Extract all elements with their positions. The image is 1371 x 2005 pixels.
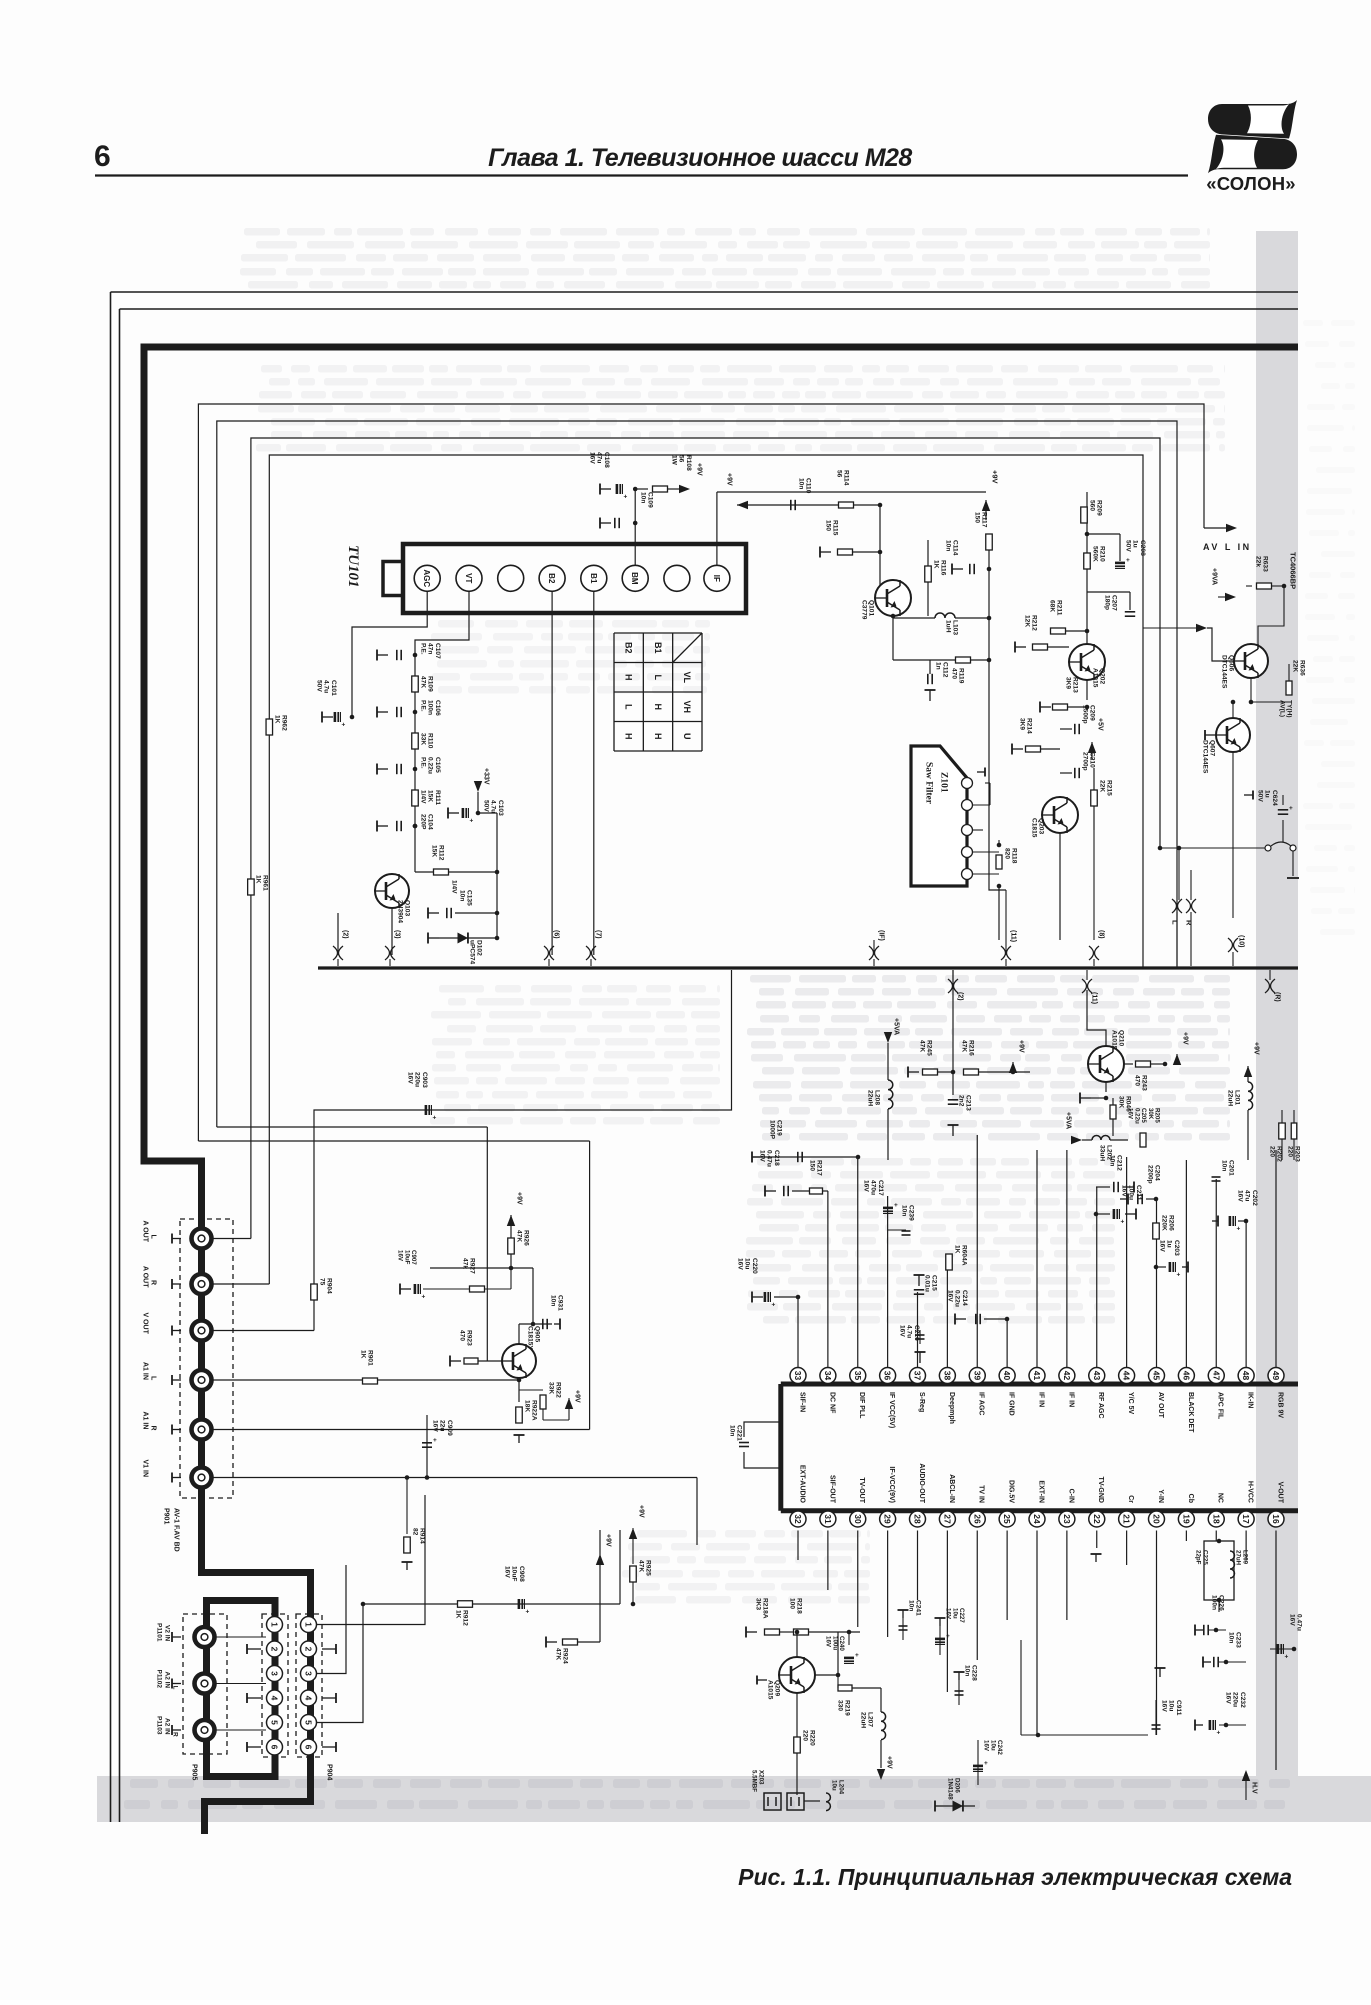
svg-text:C212: C212 — [1116, 1155, 1123, 1171]
svg-text:0.47u: 0.47u — [766, 1150, 773, 1167]
svg-text:R927: R927 — [469, 1258, 476, 1274]
svg-text:16: 16 — [1271, 1514, 1281, 1524]
svg-text:V OUT: V OUT — [142, 1313, 149, 1335]
svg-text:C103: C103 — [497, 800, 504, 816]
svg-text:C3779: C3779 — [861, 600, 868, 620]
svg-text:V2 IN: V2 IN — [164, 1625, 171, 1642]
svg-text:16V: 16V — [1225, 1692, 1232, 1704]
svg-text:A1 IN: A1 IN — [142, 1412, 149, 1430]
svg-text:C1815Y: C1815Y — [527, 1326, 534, 1350]
svg-text:R210: R210 — [1099, 546, 1106, 562]
svg-text:R: R — [172, 1732, 179, 1737]
svg-text:P904: P904 — [326, 1764, 333, 1780]
svg-text:Q103: Q103 — [404, 900, 411, 916]
svg-text:C109: C109 — [647, 492, 654, 508]
svg-text:R922A: R922A — [531, 1400, 538, 1421]
svg-text:TC4066BP: TC4066BP — [1289, 552, 1298, 589]
svg-text:IK-IN: IK-IN — [1247, 1392, 1254, 1408]
svg-text:470u: 470u — [870, 1180, 877, 1195]
svg-text:C202: C202 — [1251, 1190, 1258, 1206]
svg-text:R604A: R604A — [961, 1245, 968, 1266]
svg-text:1u: 1u — [1264, 790, 1271, 798]
svg-text:1u: 1u — [1132, 540, 1139, 548]
svg-text:4: 4 — [304, 1696, 314, 1701]
svg-text:100: 100 — [789, 1598, 796, 1609]
svg-text:«СОЛОН»: «СОЛОН» — [1206, 173, 1296, 194]
svg-text:C204: C204 — [1154, 1165, 1161, 1181]
svg-text:180p: 180p — [1104, 595, 1111, 610]
svg-text:R: R — [150, 1280, 157, 1285]
svg-text:15K: 15K — [431, 845, 438, 857]
svg-text:Q905: Q905 — [534, 1326, 541, 1342]
svg-text:R117: R117 — [981, 512, 988, 528]
svg-text:L: L — [1171, 920, 1180, 925]
svg-text:R901: R901 — [367, 1350, 374, 1366]
svg-text:DTC144ES: DTC144ES — [1202, 740, 1209, 774]
svg-text:P905: P905 — [191, 1764, 198, 1780]
svg-text:100n: 100n — [1211, 1595, 1218, 1610]
svg-text:H: H — [653, 733, 663, 740]
svg-text:16V: 16V — [1121, 1185, 1128, 1197]
svg-text:3K3: 3K3 — [755, 1598, 762, 1610]
svg-text:5: 5 — [270, 1720, 280, 1725]
svg-text:IF: IF — [712, 575, 721, 582]
svg-text:23: 23 — [1062, 1514, 1072, 1524]
svg-text:(R): (R) — [1274, 992, 1281, 1002]
svg-text:560K: 560K — [1092, 546, 1099, 562]
svg-text:10u: 10u — [831, 1780, 838, 1791]
svg-text:A1 IN: A1 IN — [142, 1362, 149, 1380]
svg-text:16V: 16V — [945, 1608, 952, 1620]
svg-text:C624: C624 — [1271, 790, 1278, 806]
svg-text:L: L — [172, 1686, 179, 1690]
svg-text:+: + — [422, 1294, 426, 1301]
svg-text:TY(H): TY(H) — [1286, 700, 1293, 718]
svg-text:R219: R219 — [844, 1700, 851, 1716]
svg-text:C108: C108 — [603, 452, 610, 468]
svg-text:EXT-AUDIO: EXT-AUDIO — [798, 1465, 805, 1504]
svg-text:(6): (6) — [553, 930, 560, 939]
svg-text:26: 26 — [972, 1514, 982, 1524]
svg-text:5.5MBF: 5.5MBF — [751, 1770, 758, 1792]
svg-text:4.7u: 4.7u — [906, 1325, 913, 1338]
svg-text:IF VCC(5V): IF VCC(5V) — [888, 1392, 895, 1428]
svg-text:SIF-OUT: SIF-OUT — [828, 1475, 835, 1504]
svg-text:R109: R109 — [427, 676, 434, 692]
svg-text:C201: C201 — [1228, 1160, 1235, 1176]
svg-text:P.E.: P.E. — [420, 700, 427, 712]
svg-text:4.7u: 4.7u — [490, 800, 497, 813]
svg-text:+33V: +33V — [483, 768, 490, 785]
svg-text:220: 220 — [1269, 1146, 1276, 1157]
svg-text:16V: 16V — [432, 1420, 439, 1432]
svg-text:56: 56 — [836, 470, 843, 478]
svg-text:33: 33 — [793, 1371, 803, 1381]
svg-text:(8): (8) — [1098, 930, 1105, 939]
svg-text:(7): (7) — [595, 930, 602, 939]
svg-text:C209: C209 — [1089, 705, 1096, 721]
svg-text:(2): (2) — [342, 930, 349, 939]
svg-text:A1015: A1015 — [767, 1680, 774, 1700]
svg-text:C241: C241 — [915, 1600, 922, 1616]
svg-text:16V: 16V — [589, 452, 596, 464]
svg-text:P1101: P1101 — [156, 1623, 163, 1642]
svg-text:22uH: 22uH — [867, 1090, 874, 1106]
svg-text:+: + — [946, 1633, 950, 1640]
svg-text:470: 470 — [1134, 1075, 1141, 1086]
svg-text:1N4148: 1N4148 — [947, 1778, 954, 1800]
svg-text:28: 28 — [913, 1514, 923, 1524]
svg-text:C1815: C1815 — [1031, 818, 1038, 838]
svg-text:82: 82 — [412, 1528, 419, 1536]
svg-text:C931: C931 — [557, 1295, 564, 1311]
svg-text:20: 20 — [1152, 1514, 1162, 1524]
svg-text:S-Reg: S-Reg — [918, 1392, 925, 1412]
svg-text:APC FIL: APC FIL — [1217, 1392, 1224, 1420]
svg-text:R243: R243 — [1141, 1075, 1148, 1091]
svg-text:TV-GND: TV-GND — [1097, 1477, 1104, 1503]
svg-text:47K: 47K — [420, 676, 427, 688]
svg-text:DC NF: DC NF — [828, 1392, 835, 1414]
svg-text:R633: R633 — [1262, 556, 1269, 572]
svg-text:+9V: +9V — [574, 1390, 581, 1403]
svg-text:6: 6 — [304, 1745, 314, 1750]
svg-text:16V: 16V — [983, 1740, 990, 1752]
svg-text:+: + — [342, 722, 346, 729]
svg-text:R203: R203 — [1294, 1146, 1301, 1162]
svg-text:33K: 33K — [548, 1382, 555, 1394]
svg-text:+9V: +9V — [696, 463, 703, 476]
svg-text:NC: NC — [1217, 1493, 1224, 1503]
svg-text:R211: R211 — [1056, 600, 1063, 616]
svg-text:50V: 50V — [316, 680, 323, 692]
svg-text:R115: R115 — [832, 520, 839, 536]
svg-text:24: 24 — [1032, 1514, 1042, 1524]
svg-text:Q203: Q203 — [1038, 818, 1045, 834]
svg-text:(3): (3) — [394, 930, 401, 939]
svg-text:(2): (2) — [957, 992, 964, 1001]
svg-text:+: + — [772, 1302, 776, 1309]
svg-text:560: 560 — [1089, 500, 1096, 511]
svg-text:C215: C215 — [931, 1275, 938, 1291]
svg-text:AV OUT: AV OUT — [1157, 1392, 1164, 1419]
svg-text:P901: P901 — [163, 1508, 170, 1524]
svg-text:R108: R108 — [685, 455, 692, 471]
svg-text:R218A: R218A — [762, 1598, 769, 1619]
svg-text:R206: R206 — [1168, 1215, 1175, 1231]
svg-text:+: + — [1177, 1272, 1181, 1279]
svg-text:34: 34 — [823, 1371, 833, 1381]
svg-text:BM: BM — [630, 572, 639, 585]
svg-text:C114: C114 — [952, 540, 959, 556]
svg-text:Z101: Z101 — [939, 772, 949, 793]
svg-text:R112: R112 — [438, 845, 445, 861]
svg-text:10n: 10n — [459, 890, 466, 901]
svg-text:49: 49 — [1271, 1371, 1281, 1381]
svg-text:AV-1 F.AV BD: AV-1 F.AV BD — [173, 1508, 180, 1552]
svg-text:1K: 1K — [360, 1350, 367, 1359]
svg-text:C214: C214 — [961, 1290, 968, 1306]
svg-text:220: 220 — [1287, 1146, 1294, 1157]
svg-text:R216: R216 — [968, 1040, 975, 1056]
svg-text:16V: 16V — [759, 1150, 766, 1162]
svg-text:2: 2 — [270, 1647, 280, 1652]
svg-text:10n: 10n — [729, 1425, 736, 1436]
svg-text:AGC: AGC — [422, 569, 431, 587]
svg-text:R116: R116 — [940, 560, 947, 576]
svg-text:16V: 16V — [1127, 1108, 1134, 1120]
svg-text:V-OUT: V-OUT — [1276, 1482, 1283, 1504]
svg-text:(10): (10) — [1238, 935, 1245, 947]
svg-text:10n: 10n — [640, 492, 647, 503]
svg-text:2N3904: 2N3904 — [397, 900, 404, 923]
svg-text:SIF-IN: SIF-IN — [798, 1392, 805, 1412]
svg-text:L: L — [623, 704, 633, 710]
svg-text:R110: R110 — [427, 733, 434, 749]
svg-text:43: 43 — [1092, 1371, 1102, 1381]
svg-text:0.22u: 0.22u — [427, 757, 434, 774]
svg-text:Q202: Q202 — [1099, 668, 1106, 684]
svg-text:+9V: +9V — [886, 1756, 893, 1769]
svg-text:Глава 1. Телевизионное шасси М: Глава 1. Телевизионное шасси М28 — [488, 144, 912, 172]
svg-text:C239: C239 — [908, 1205, 915, 1221]
svg-text:+: + — [1237, 1226, 1241, 1233]
svg-text:L201: L201 — [1234, 1090, 1241, 1105]
svg-text:Deepmph: Deepmph — [948, 1392, 955, 1424]
svg-text:C208: C208 — [1139, 540, 1146, 556]
svg-text:R922: R922 — [555, 1382, 562, 1398]
svg-text:Cr: Cr — [1127, 1495, 1134, 1503]
svg-text:P1103: P1103 — [156, 1716, 163, 1735]
svg-text:ABCL-IN: ABCL-IN — [948, 1474, 955, 1503]
svg-text:Y-IN: Y-IN — [1157, 1489, 1164, 1503]
svg-text:50V: 50V — [1257, 790, 1264, 802]
svg-text:25: 25 — [1002, 1514, 1012, 1524]
svg-text:IF IN: IF IN — [1037, 1392, 1044, 1407]
svg-text:1K: 1K — [954, 1245, 961, 1254]
svg-text:+9V: +9V — [1253, 1042, 1260, 1055]
svg-text:+9V: +9V — [1018, 1040, 1025, 1053]
svg-text:47u: 47u — [596, 452, 603, 463]
svg-text:VH: VH — [682, 700, 692, 713]
svg-text:R214: R214 — [1026, 718, 1033, 734]
svg-text:C216: C216 — [913, 1325, 920, 1341]
svg-text:L207: L207 — [867, 1712, 874, 1727]
svg-text:150: 150 — [825, 520, 832, 531]
svg-text:40: 40 — [1002, 1371, 1012, 1381]
svg-text:820: 820 — [1004, 848, 1011, 859]
svg-text:+9V: +9V — [1182, 1032, 1189, 1045]
svg-text:100n: 100n — [427, 700, 434, 715]
svg-text:38: 38 — [942, 1371, 952, 1381]
svg-text:A OUT: A OUT — [142, 1221, 149, 1243]
svg-text:C105: C105 — [434, 757, 441, 773]
svg-text:+: + — [1217, 1730, 1221, 1737]
svg-text:H: H — [653, 704, 663, 711]
svg-text:44: 44 — [1122, 1371, 1132, 1381]
svg-text:U: U — [682, 733, 692, 740]
svg-text:L: L — [150, 1235, 157, 1240]
svg-text:H: H — [623, 733, 633, 740]
svg-text:29: 29 — [883, 1514, 893, 1524]
svg-text:220: 220 — [802, 1730, 809, 1741]
svg-text:+: + — [433, 1115, 437, 1122]
svg-text:R: R — [150, 1426, 157, 1431]
svg-text:+: + — [470, 818, 474, 825]
svg-text:10n: 10n — [964, 1665, 971, 1676]
svg-text:C226: C226 — [1218, 1595, 1225, 1611]
svg-text:C903: C903 — [421, 1072, 428, 1088]
svg-text:(IF): (IF) — [878, 930, 885, 941]
svg-text:(11): (11) — [1010, 930, 1017, 942]
svg-text:1u: 1u — [1166, 1240, 1173, 1248]
svg-text:R217: R217 — [816, 1160, 823, 1176]
svg-text:+: + — [526, 1609, 530, 1616]
svg-text:45: 45 — [1152, 1371, 1162, 1381]
svg-text:A1015: A1015 — [1111, 1030, 1118, 1050]
svg-text:22uH: 22uH — [1227, 1090, 1234, 1106]
svg-text:R912: R912 — [462, 1610, 469, 1626]
svg-text:R925: R925 — [645, 1560, 652, 1576]
svg-text:5: 5 — [304, 1720, 314, 1725]
svg-text:R220: R220 — [809, 1730, 816, 1746]
svg-text:2n2: 2n2 — [958, 1095, 965, 1107]
svg-text:C909: C909 — [446, 1420, 453, 1436]
svg-text:RGB 9V: RGB 9V — [1276, 1392, 1283, 1418]
svg-text:22: 22 — [1092, 1514, 1102, 1524]
svg-text:B2: B2 — [547, 573, 556, 584]
svg-text:R923: R923 — [466, 1330, 473, 1346]
svg-text:10n: 10n — [1109, 1155, 1116, 1166]
svg-text:P1102: P1102 — [156, 1670, 163, 1689]
svg-text:+5VA: +5VA — [1065, 1112, 1072, 1129]
svg-text:16V: 16V — [504, 1566, 511, 1578]
svg-text:DIF PLL: DIF PLL — [858, 1392, 865, 1419]
svg-text:AV(L): AV(L) — [1279, 700, 1286, 717]
svg-text:1000P: 1000P — [769, 1120, 776, 1140]
svg-text:50V: 50V — [483, 800, 490, 812]
svg-text:47K: 47K — [638, 1560, 645, 1572]
svg-text:R: R — [1185, 920, 1194, 926]
svg-text:1uH: 1uH — [945, 620, 952, 633]
svg-text:1K: 1K — [455, 1610, 462, 1619]
svg-text:C203: C203 — [1173, 1240, 1180, 1256]
svg-text:BLACK DET: BLACK DET — [1187, 1392, 1194, 1433]
svg-text:Q209: Q209 — [774, 1680, 781, 1696]
svg-text:B2: B2 — [623, 642, 633, 654]
svg-text:H-VCC: H-VCC — [1247, 1481, 1254, 1503]
svg-text:VL: VL — [682, 671, 692, 683]
svg-text:(11): (11) — [1091, 992, 1098, 1004]
svg-text:46: 46 — [1181, 1371, 1191, 1381]
svg-text:TV IN: TV IN — [978, 1485, 985, 1503]
svg-text:150: 150 — [809, 1160, 816, 1171]
svg-text:10n: 10n — [798, 478, 805, 489]
svg-text:+: + — [984, 1760, 988, 1767]
svg-text:A OUT: A OUT — [142, 1266, 149, 1288]
svg-text:B1: B1 — [589, 573, 598, 584]
svg-text:DIG.5V: DIG.5V — [1008, 1480, 1015, 1503]
svg-text:6: 6 — [270, 1745, 280, 1750]
svg-text:2700p: 2700p — [1082, 752, 1089, 771]
svg-text:A1015: A1015 — [1092, 668, 1099, 688]
svg-text:15K: 15K — [427, 790, 434, 802]
svg-text:3K9: 3K9 — [1019, 718, 1026, 730]
svg-text:IF AGC: IF AGC — [978, 1392, 985, 1415]
svg-text:C-IN: C-IN — [1067, 1489, 1074, 1503]
svg-text:+5V: +5V — [1097, 718, 1104, 731]
svg-text:0.22u: 0.22u — [954, 1290, 961, 1307]
svg-text:B1: B1 — [653, 642, 663, 654]
svg-text:R926: R926 — [523, 1230, 530, 1246]
svg-text:R114: R114 — [843, 470, 850, 486]
svg-text:+: + — [624, 494, 628, 501]
svg-text:+: + — [1289, 805, 1293, 812]
svg-text:R119: R119 — [958, 668, 965, 684]
svg-text:30: 30 — [853, 1514, 863, 1524]
svg-text:22K: 22K — [1292, 660, 1299, 672]
svg-text:39: 39 — [972, 1371, 982, 1381]
svg-text:330: 330 — [837, 1700, 844, 1711]
svg-text:470: 470 — [951, 668, 958, 679]
svg-text:+9V: +9V — [605, 1534, 612, 1547]
svg-text:36: 36 — [883, 1371, 893, 1381]
svg-text:C104: C104 — [427, 814, 434, 830]
svg-text:41: 41 — [1032, 1371, 1042, 1381]
svg-text:16V: 16V — [899, 1325, 906, 1337]
svg-text:47: 47 — [1211, 1371, 1221, 1381]
svg-text:R212: R212 — [1031, 615, 1038, 631]
svg-text:10n: 10n — [945, 540, 952, 551]
svg-text:33K: 33K — [420, 733, 427, 745]
svg-text:Рис. 1.1. Принципиальная элект: Рис. 1.1. Принципиальная электрическая с… — [738, 1864, 1292, 1890]
svg-text:Cb: Cb — [1187, 1494, 1194, 1503]
svg-text:C207: C207 — [1111, 595, 1118, 611]
svg-text:R924: R924 — [562, 1648, 569, 1664]
svg-text:18: 18 — [1211, 1514, 1221, 1524]
svg-text:220P: 220P — [420, 814, 427, 830]
svg-text:42: 42 — [1062, 1371, 1072, 1381]
svg-text:C135: C135 — [466, 890, 473, 906]
svg-text:V1 IN: V1 IN — [142, 1460, 149, 1478]
svg-text:21: 21 — [1122, 1514, 1132, 1524]
svg-text:16V: 16V — [1159, 1240, 1166, 1252]
svg-text:220K: 220K — [1161, 1215, 1168, 1231]
svg-text:C213: C213 — [965, 1095, 972, 1111]
svg-text:1/4V: 1/4V — [420, 790, 427, 804]
svg-text:C217: C217 — [877, 1180, 884, 1196]
svg-text:18K: 18K — [524, 1400, 531, 1412]
svg-text:10u: 10u — [744, 1258, 751, 1269]
svg-text:Q210: Q210 — [1118, 1030, 1125, 1046]
svg-text:33uH: 33uH — [1099, 1145, 1106, 1161]
svg-text:Q101: Q101 — [868, 600, 875, 616]
svg-text:27uH: 27uH — [1235, 1550, 1242, 1566]
svg-text:0.01u: 0.01u — [924, 1275, 931, 1292]
svg-text:A2 IN: A2 IN — [164, 1718, 171, 1735]
svg-text:R218: R218 — [796, 1598, 803, 1614]
svg-text:R118: R118 — [1011, 848, 1018, 864]
svg-text:1n: 1n — [935, 662, 942, 670]
svg-text:EXT-IN: EXT-IN — [1037, 1480, 1044, 1503]
svg-text:R636: R636 — [1299, 660, 1306, 676]
svg-text:2: 2 — [304, 1647, 314, 1652]
svg-text:Y/C 5V: Y/C 5V — [1127, 1392, 1134, 1415]
svg-text:+: + — [1285, 1654, 1289, 1661]
svg-text:TU101: TU101 — [345, 545, 361, 588]
svg-text:3K9: 3K9 — [1065, 677, 1072, 689]
svg-text:35: 35 — [853, 1371, 863, 1381]
